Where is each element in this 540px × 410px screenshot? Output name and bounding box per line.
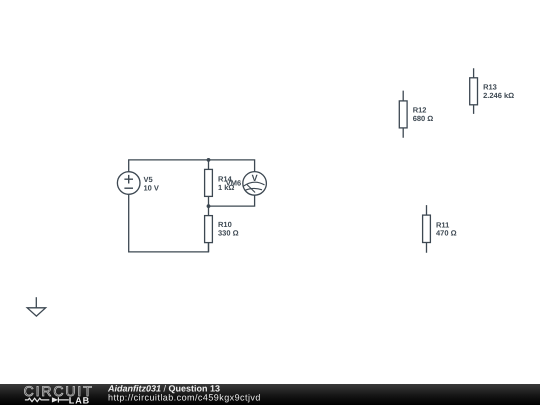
resistor R10 (205, 206, 213, 252)
svg-text:V: V (252, 173, 258, 183)
junction node A (207, 158, 211, 162)
resistor R11 (423, 205, 431, 253)
junction node B (207, 204, 211, 208)
svg-text:10 V: 10 V (144, 183, 159, 192)
wire bottom net V5 to R10 (129, 194, 209, 252)
svg-text:LAB: LAB (69, 395, 90, 405)
resistor R13 (470, 68, 478, 114)
svg-text:2.246 kΩ: 2.246 kΩ (483, 91, 514, 100)
CircuitLab logo resistor zigzag and diode symbol (25, 397, 69, 402)
wire top net from V5 to VM6 (129, 160, 255, 172)
wire VM6 bottom to node B (209, 195, 255, 206)
svg-text:VM6: VM6 (226, 178, 241, 187)
voltage source V5 (117, 172, 140, 195)
footer bar (0, 384, 540, 405)
resistor R12 (399, 91, 407, 138)
svg-text:680 Ω: 680 Ω (413, 114, 434, 123)
resistor R14 (205, 160, 213, 206)
svg-text:470 Ω: 470 Ω (436, 229, 457, 238)
svg-text:http://circuitlab.com/c459kgx9: http://circuitlab.com/c459kgx9ctjvd (108, 393, 261, 403)
voltmeter VM6 (243, 172, 267, 196)
ground (27, 297, 45, 316)
svg-text:330 Ω: 330 Ω (218, 228, 239, 237)
